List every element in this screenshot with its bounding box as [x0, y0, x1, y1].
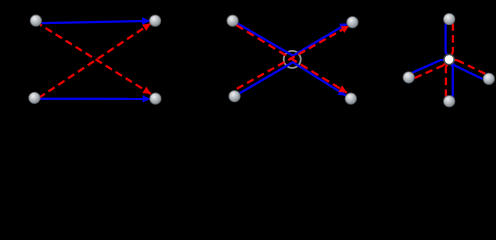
- node G2 top-left: [227, 15, 238, 26]
- wire red dashed arrow G1 top-left to bottom-right: [40, 25, 151, 94]
- wire blue arrow G3 right node to center hub: [453, 63, 483, 79]
- wire red dashed arrow G3 top node to center hub: [452, 23, 454, 52]
- node G2 bottom-left: [229, 91, 240, 102]
- wire blue arrow G1 bottom-left to bottom-right: [40, 98, 150, 100]
- node G3 right: [483, 73, 494, 84]
- wire red dashed arrow G3 bottom node to center hub: [445, 67, 447, 97]
- wire blue bent arrow G2 top-left via crossing to top-right: [237, 23, 347, 55]
- node G2 top-right: [347, 17, 358, 28]
- node G1 top-left: [30, 15, 41, 26]
- node G2 bottom-right: [345, 93, 356, 104]
- node G1 bottom-right: [150, 93, 161, 104]
- wire blue arrow G3 left node to center hub: [412, 60, 444, 73]
- wire red dashed arrow G2 bottom-left to top-right: [237, 26, 349, 89]
- node G2 crossing highlight circle: [284, 51, 301, 68]
- wire red dashed arrow G3 right node to center hub: [457, 60, 485, 74]
- node G3 center hub: [444, 54, 454, 64]
- wire blue arrow G1 top-left to top-right: [42, 21, 150, 23]
- node G3 top: [444, 13, 455, 24]
- wire red dashed arrow G1 bottom-left to top-right: [39, 24, 151, 99]
- node G3 bottom: [444, 96, 455, 107]
- wire blue arrow G3 top node to center hub: [446, 23, 447, 54]
- node G1 top-right: [149, 15, 160, 26]
- wire red dashed arrow G3 left node to center hub: [415, 65, 443, 78]
- wire blue bent arrow G2 bottom-left via crossing to bottom-right: [239, 62, 346, 95]
- wire red dashed arrow G2 top-left to bottom-right: [236, 25, 347, 93]
- wire blue arrow G3 bottom node to center hub: [451, 64, 452, 97]
- node G1 bottom-left: [29, 92, 40, 103]
- node G3 left: [403, 72, 414, 83]
